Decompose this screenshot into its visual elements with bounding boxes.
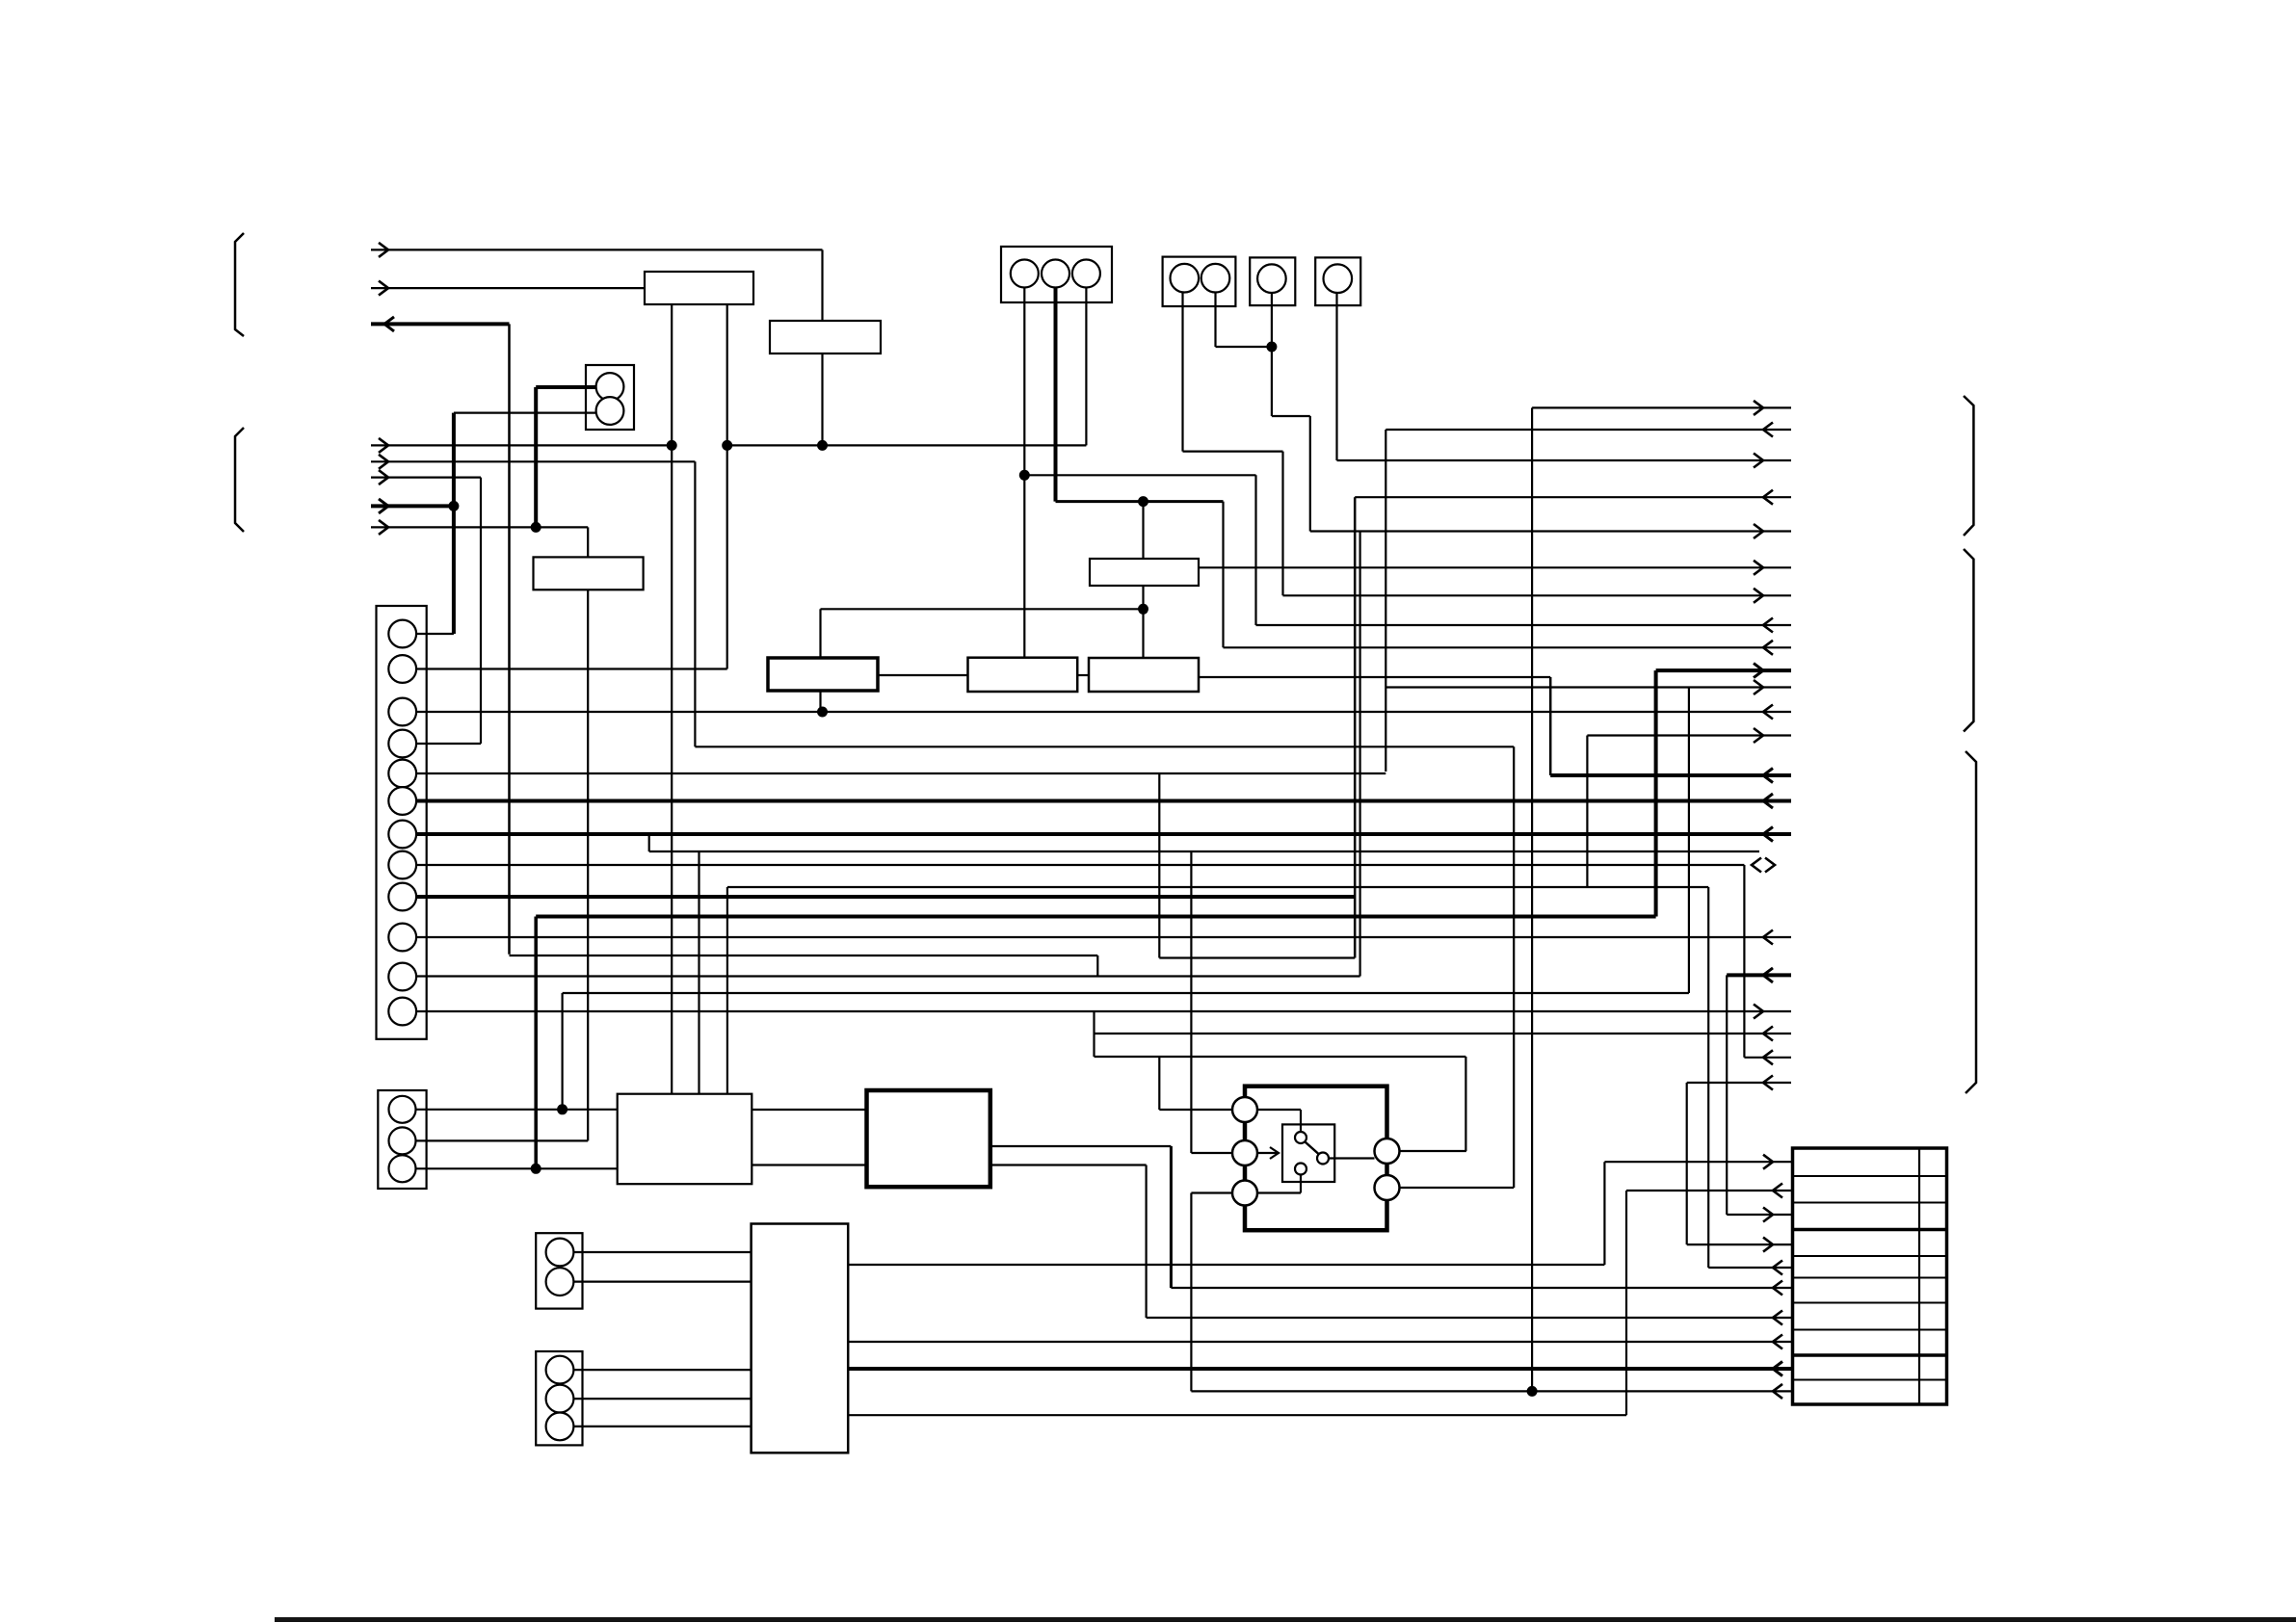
wire out649 — [1256, 624, 1792, 626]
wire V1609 — [1549, 677, 1552, 775]
arrowhead in8 — [379, 520, 388, 535]
arrowhead out714 — [1754, 680, 1763, 694]
junction J12 — [531, 1164, 541, 1174]
arrowhead row6 — [1773, 1281, 1782, 1296]
brace left group 2 — [235, 428, 244, 532]
scan artifact band — [275, 1617, 2296, 1622]
CN2 pin 2 — [1201, 264, 1230, 293]
CN2a pin 1 — [1257, 264, 1286, 293]
wire bus1337 — [1171, 1287, 1792, 1289]
wire B7 out — [1199, 676, 1550, 678]
relay wire C to switch — [1257, 1191, 1301, 1193]
wire net462 riser to CN3 pin3 — [1085, 288, 1087, 446]
block B4 — [1090, 559, 1199, 586]
CNB2 pin 1 — [546, 1356, 574, 1384]
wire CN4 pin3 bus — [416, 711, 1791, 713]
wire V1792 — [1726, 975, 1728, 1215]
connector CN3 — [1001, 247, 1112, 302]
arrowhead out672 — [1763, 641, 1773, 655]
table row line y1432.5 — [1793, 1379, 1947, 1381]
wire CN2 pin2 drop — [1214, 293, 1216, 347]
arrowhead out649 — [1763, 618, 1773, 633]
CNB1 pin 2 — [546, 1268, 574, 1296]
wire in8 drop to B3 — [587, 527, 589, 557]
arrowhead in1 — [379, 243, 388, 257]
wire V1521 riser — [1465, 1057, 1466, 1151]
table row line y1326.5 — [1793, 1277, 1947, 1279]
wire run432 — [1272, 415, 1310, 417]
relay switch contact right — [1317, 1153, 1329, 1165]
arrowhead out805 — [1763, 769, 1773, 783]
wire CNB2 pin2 — [573, 1398, 751, 1400]
wire V1647 — [1586, 736, 1588, 888]
relay terminal B — [1232, 1140, 1257, 1165]
wire net462 east — [727, 444, 1087, 446]
table row line y1221 — [1793, 1175, 1947, 1177]
arrowhead out1097 — [1763, 1050, 1773, 1064]
arrowhead out696 — [1754, 664, 1763, 678]
arrowhead row4 — [1763, 1238, 1773, 1252]
wire run632 — [821, 608, 1144, 610]
junction J9 — [817, 707, 828, 718]
wire V1406 bold — [1354, 497, 1357, 957]
CN4 pin 3 — [388, 698, 416, 726]
arrowhead row7 — [1773, 1311, 1782, 1325]
relay wire switch bottom rise — [1300, 1175, 1302, 1193]
wire bus1313 — [848, 1264, 1604, 1266]
wire into relay circle B — [1191, 1152, 1232, 1154]
wire in4 — [371, 444, 672, 446]
junction J7 — [1138, 496, 1148, 507]
relay switch contact bottom — [1295, 1164, 1306, 1175]
wire V1203 upper — [1158, 773, 1160, 958]
wire in7 bold — [371, 504, 454, 508]
CN5 pin 3 — [389, 1155, 416, 1182]
arrowhead bus866 — [1763, 827, 1773, 842]
wire in5 — [371, 460, 695, 462]
wire V1269 — [1222, 502, 1224, 648]
wire out1124b — [1687, 1082, 1791, 1084]
wire V1303 — [1254, 475, 1256, 625]
wire V673 stub — [648, 834, 650, 851]
relay wire switch to D — [1329, 1157, 1375, 1159]
wire V1189 — [1145, 1165, 1147, 1319]
wire B9 out2 — [990, 1164, 1147, 1165]
arrowhead out589 — [1754, 561, 1763, 575]
wire V1136 drop — [1093, 1011, 1095, 1058]
CN4 pin 9 — [388, 883, 416, 911]
arrowhead row8 — [1773, 1335, 1782, 1349]
relay unit B10 — [1245, 1086, 1387, 1231]
arrowhead glyph898 left — [1752, 858, 1761, 873]
wire CN5 pin1 — [416, 1109, 618, 1111]
wire V1590 — [1531, 407, 1533, 1391]
wire CN2 pin1 drop — [1181, 293, 1183, 452]
wire in6 drop — [480, 478, 482, 744]
wire into relay circle E — [1400, 1187, 1515, 1189]
connector CN2a — [1250, 257, 1295, 305]
wire CN3 pin2 drop bold — [1054, 288, 1058, 502]
arrowhead in7 — [379, 499, 388, 513]
brace right group 2 — [1964, 549, 1973, 732]
connector CN2b — [1315, 257, 1360, 305]
arrowhead out445 — [1763, 423, 1773, 437]
junction J6 — [1019, 470, 1030, 481]
block B8 — [618, 1094, 752, 1185]
wire CN5 pin3 — [416, 1167, 618, 1169]
wire into relay circle A — [1159, 1109, 1232, 1111]
wire bus1368 — [1147, 1317, 1793, 1319]
CN3 pin 2 — [1042, 260, 1069, 288]
wire out672 — [1224, 646, 1792, 648]
arrowhead bus1050 — [1754, 1005, 1763, 1019]
block B11 — [752, 1224, 849, 1453]
wire out3 lower run — [510, 955, 1098, 956]
wire table row3 feed — [1727, 1214, 1792, 1216]
CNB2 pin 2 — [546, 1385, 574, 1413]
relay wire A to switch — [1257, 1109, 1301, 1111]
table divider — [1918, 1148, 1920, 1404]
block B3 — [534, 557, 644, 589]
CN4 pin 7 — [388, 821, 416, 849]
wire out423 — [1532, 406, 1791, 408]
arrowhead bus739 — [1763, 705, 1773, 720]
wire V1236 lower — [1190, 1193, 1192, 1392]
arrowhead row3 — [1763, 1208, 1773, 1222]
arrowhead out423 — [1754, 401, 1763, 415]
connector CNB1 — [536, 1233, 582, 1308]
wire CNB2 pin1 — [573, 1369, 751, 1371]
brace right group 1 — [1964, 396, 1973, 536]
wire V1438 — [1385, 430, 1386, 772]
wire CN4 pin1 stub — [416, 633, 454, 635]
wire V1186 lower — [1142, 586, 1144, 658]
wire CN4 pin11 bus — [416, 975, 1360, 977]
arrowhead row10 — [1773, 1384, 1782, 1399]
wire out3 vertical — [508, 324, 511, 954]
wire out516 — [1355, 496, 1791, 498]
wire V1215 bold — [1170, 1146, 1173, 1288]
junction J2 — [722, 440, 732, 451]
wire in5 drop to relay E — [1513, 746, 1515, 1188]
wire CN4 pin10 bus — [416, 936, 1791, 938]
wire V1236 to relay B — [1190, 851, 1192, 1153]
wire V754 to B8 — [726, 887, 728, 1094]
wire out763 — [1587, 734, 1791, 736]
wire run921 — [727, 886, 1708, 888]
wire CN4 pin12 bus — [416, 1010, 1791, 1012]
relay wire B arrow line — [1257, 1152, 1279, 1154]
table row line y1407 — [1793, 1353, 1947, 1357]
arrowhead bus831 — [1763, 794, 1773, 808]
CN4 pin 11 — [388, 963, 416, 991]
arrowhead glyph898 right — [1765, 858, 1775, 873]
relay terminal E — [1375, 1175, 1400, 1200]
arrowhead out516 — [1763, 490, 1773, 505]
wire V1773 — [1707, 887, 1709, 1268]
wire B6-B7 link — [1077, 674, 1089, 676]
relay terminal A — [1232, 1097, 1257, 1122]
wire V1412 — [1359, 532, 1360, 977]
wire CN4 pin8 bus — [416, 864, 1744, 866]
CNB2 pin 3 — [546, 1413, 574, 1441]
wire bus1393 — [848, 1341, 1792, 1343]
wire in8 — [371, 526, 588, 528]
wire V1665 — [1603, 1162, 1605, 1265]
wire B8-B9 link1 — [752, 1109, 866, 1111]
arrowhead out763 — [1754, 728, 1763, 743]
wire run360 — [1216, 346, 1272, 348]
arrowhead out478 — [1754, 454, 1763, 468]
wire out3 bold — [371, 322, 510, 326]
wire out1012 bold — [1727, 973, 1791, 977]
wire B3 bottom leg — [587, 589, 589, 1140]
junction J4 — [448, 501, 459, 511]
wire run884 — [649, 851, 1759, 852]
wire bold V1718 — [1654, 670, 1658, 916]
relay arrowhead B — [1270, 1147, 1279, 1159]
wire B1 right leg — [726, 304, 728, 669]
wire in6 — [371, 477, 481, 479]
wire out445 — [1386, 429, 1791, 431]
wire in5 drop — [694, 461, 696, 746]
CN4 pin 8 — [388, 851, 416, 879]
wire jog V1139 — [1096, 955, 1098, 977]
arrowhead out1012 — [1763, 968, 1773, 982]
connector CN5 — [378, 1090, 426, 1189]
wire CNB1 pin2 — [573, 1280, 751, 1282]
lamp L1 circle 2 — [596, 397, 624, 425]
CN3 pin 1 — [1011, 260, 1039, 288]
relay switch box — [1282, 1124, 1334, 1182]
CN4 pin 1 — [388, 620, 416, 648]
wire CN3 pin1 drop — [1023, 288, 1025, 658]
wire CN5 pin2 — [416, 1139, 589, 1141]
wire in1 drop to B2 — [821, 249, 823, 321]
wire B5-B6 link — [878, 674, 968, 676]
junction J1 — [667, 440, 677, 451]
CN4 pin 5 — [388, 760, 416, 788]
junction J8 — [1266, 342, 1277, 353]
wire out551 — [1310, 530, 1791, 532]
wire CN4 pin4 stub — [416, 743, 481, 745]
table row line y1304 — [1793, 1255, 1947, 1257]
block B1 — [645, 272, 753, 304]
arrowhead in5 — [379, 455, 388, 469]
wire B5 bottom stub — [819, 691, 821, 712]
CN4 pin 10 — [388, 924, 416, 952]
junction J10 — [1138, 604, 1148, 615]
connector CN4 — [377, 606, 427, 1039]
arrowhead in2 — [379, 281, 388, 296]
relay wire switch top drop — [1300, 1110, 1302, 1132]
arrowhead row5 — [1773, 1261, 1782, 1275]
lamp box L1 — [586, 365, 634, 430]
wire table row5 feed — [1708, 1267, 1792, 1269]
wire out589 — [1199, 566, 1791, 568]
wire V1186 upper — [1142, 502, 1144, 559]
CN4 pin 2 — [388, 655, 416, 683]
relay switch lever — [1306, 1142, 1319, 1155]
wire in1 — [371, 249, 823, 250]
relay terminal D — [1375, 1139, 1400, 1164]
wire out478 — [1337, 459, 1792, 461]
arrowhead out3 — [384, 317, 394, 331]
connector CNB2 — [536, 1351, 582, 1445]
wire run493 — [1024, 474, 1255, 476]
wire B5 top riser — [819, 609, 821, 658]
wire bold out696 — [1656, 668, 1791, 672]
wire CN4 pin7 bus bold — [416, 832, 1791, 836]
CN4 pin 4 — [388, 730, 416, 758]
wire CNB1 pin1 — [573, 1251, 751, 1253]
wire bus1469 — [848, 1414, 1626, 1416]
junction J13 — [1527, 1386, 1538, 1397]
junction J11 — [557, 1104, 567, 1114]
wire in2 — [371, 287, 645, 289]
wire run994 — [1159, 956, 1355, 958]
table row line y1352.5 — [1793, 1302, 1947, 1304]
brace left group 1 — [235, 233, 244, 336]
wire out1097 — [1744, 1057, 1791, 1059]
relay switch contact top — [1295, 1132, 1306, 1143]
wire V556 lower — [534, 917, 538, 1169]
wire CNB2 pin3 — [573, 1426, 751, 1427]
CN4 pin 12 — [388, 998, 416, 1026]
junction J5 — [531, 522, 541, 533]
lamp L1 circle 1 — [596, 373, 624, 401]
arrowhead out551 — [1754, 524, 1763, 538]
arrowhead out618 — [1754, 589, 1763, 603]
wire B8-B9 link2 — [752, 1164, 866, 1165]
wire out618 — [1283, 594, 1792, 596]
table row line y1248.5 — [1793, 1202, 1947, 1204]
block B2 — [770, 321, 881, 353]
wire lamp2 — [454, 412, 595, 414]
wire table row1 feed — [1604, 1161, 1792, 1163]
wire relay C west — [1191, 1191, 1232, 1193]
wire bus1444 — [1191, 1390, 1792, 1392]
arrowhead bus973 — [1763, 930, 1773, 945]
block B5 — [768, 658, 878, 691]
wire V1753 — [1688, 688, 1690, 994]
arrowhead out1124b — [1763, 1076, 1773, 1090]
block B7 — [1089, 658, 1199, 692]
wire B2 bottom drop — [821, 353, 823, 445]
arrowhead row1 — [1763, 1155, 1773, 1169]
wire V1360 — [1309, 416, 1311, 532]
wire lamp1 bold — [536, 385, 595, 389]
wire V1331 — [1281, 452, 1283, 596]
table row line y1276.5 — [1793, 1228, 1947, 1232]
wire V1688 — [1625, 1191, 1627, 1415]
arrowhead out1073 — [1763, 1027, 1773, 1041]
CN3 pin 3 — [1072, 260, 1100, 288]
CNB1 pin 1 — [546, 1239, 574, 1267]
arrowhead in4 — [379, 438, 388, 453]
wire CN4 pin6 bus bold — [416, 799, 1791, 803]
wire run1031 — [563, 992, 1689, 994]
wire V1750 — [1686, 1083, 1688, 1244]
block B6 — [968, 658, 1078, 692]
CN5 pin 1 — [389, 1096, 416, 1123]
wire V697 to B8 — [671, 304, 673, 1094]
wire run520 bold — [1056, 500, 1224, 503]
wire bold run951 — [536, 915, 1655, 919]
arrowhead row9 — [1773, 1362, 1782, 1376]
CN2 pin 1 — [1171, 264, 1200, 293]
table row line y1380.5 — [1793, 1329, 1947, 1331]
wire V1203 lower — [1158, 1057, 1160, 1110]
wire out714 — [1386, 686, 1791, 688]
wire CN4 pin5 bus — [416, 772, 1386, 774]
wire V583 riser — [561, 993, 563, 1110]
junction J3 — [817, 440, 828, 451]
wire B9 out1 — [990, 1145, 1172, 1147]
connector CN2 — [1163, 257, 1236, 306]
CN2b pin 1 — [1324, 264, 1353, 293]
wire run468 — [1183, 451, 1283, 453]
wire bus1421 bold — [848, 1367, 1792, 1371]
wire V725 to B8 — [698, 851, 699, 1094]
wire lamp2 drop bold — [452, 413, 456, 634]
CN4 pin 6 — [388, 787, 416, 815]
wire CN2b drop — [1335, 293, 1337, 460]
arrowhead row2 — [1773, 1184, 1782, 1198]
wire in5 run775 — [695, 746, 1514, 747]
CN5 pin 2 — [389, 1127, 416, 1154]
wire table row2 feed — [1626, 1190, 1793, 1191]
table frame — [1793, 1148, 1947, 1404]
wire out1073 — [1095, 1033, 1792, 1034]
arrowhead in6 — [379, 470, 388, 484]
relay terminal C — [1232, 1181, 1257, 1206]
wire CN2a drop — [1271, 293, 1273, 416]
wire CN4 pin9 bus bold — [416, 895, 1355, 899]
wire lamp1 drop bold — [534, 387, 538, 527]
block B9 — [867, 1090, 990, 1187]
wire CN4 pin2 — [416, 668, 727, 669]
wire table row4 feed — [1687, 1243, 1793, 1245]
wire relay D east — [1400, 1150, 1466, 1152]
wire run1097 — [1095, 1056, 1466, 1058]
wire V1810 — [1743, 865, 1745, 1058]
brace right group 3 — [1966, 751, 1976, 1093]
wire bold out805 — [1550, 773, 1791, 777]
